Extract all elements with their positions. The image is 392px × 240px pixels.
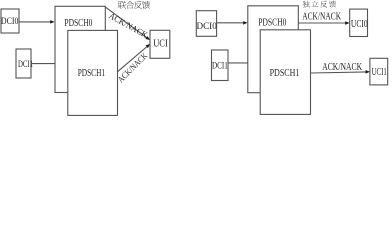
box UCI1 (right diagram) [370, 58, 388, 85]
svg-text:PDSCH0: PDSCH0 [258, 17, 286, 28]
arrow PDSCH1 to UCI diagonal (left lower) [117, 44, 150, 72]
svg-text:DCI1: DCI1 [212, 61, 228, 72]
svg-text:PDSCH0: PDSCH0 [64, 18, 92, 29]
box DCI0 (right diagram) [196, 11, 217, 37]
arrow DCI0 to PDSCH0 (right) [217, 21, 248, 25]
arrow DCI1 to PDSCH1 (left) [31, 62, 68, 65]
svg-text:DCI1: DCI1 [18, 59, 33, 70]
arrow PDSCH1 to UCI1 (right lower) [311, 70, 371, 74]
box PDSCH0 outer (right diagram) [248, 6, 298, 93]
label ACK/NACK (right upper) [302, 12, 341, 23]
box PDSCH1 inner (left diagram, overlaps PDSCH0) [68, 30, 118, 115]
svg-text:PDSCH1: PDSCH1 [270, 68, 300, 79]
arrow PDSCH0 to UCI diagonal (left upper) [105, 7, 150, 40]
box UCI (left diagram) [150, 30, 170, 58]
label ACK/NACK (right lower) [322, 62, 362, 73]
svg-text:ACK/NACK: ACK/NACK [302, 12, 341, 23]
arrow DCI0 to PDSCH0 (left) [19, 20, 55, 24]
svg-text:UCI1: UCI1 [372, 67, 387, 78]
box PDSCH1 inner (right diagram, overlaps PDSCH0) [260, 30, 310, 115]
label 独立反馈 (independent feedback, right) [303, 1, 336, 8]
box DCI1 (left diagram) [16, 49, 33, 78]
label ACK/NACK rotated (left lower) [115, 50, 149, 84]
label ACK/NACK rotated (left upper) [107, 10, 150, 40]
svg-text:UCI: UCI [153, 39, 168, 50]
svg-text:PDSCH1: PDSCH1 [78, 68, 105, 79]
box DCI0 (left diagram) [1, 9, 19, 33]
arrow PDSCH0 to UCI0 (right upper) [298, 21, 349, 25]
svg-text:DCI0: DCI0 [1, 16, 19, 27]
box PDSCH0 outer (left diagram) [55, 6, 105, 92]
svg-text:UCI0: UCI0 [351, 19, 368, 30]
svg-text:DCI0: DCI0 [197, 21, 217, 32]
label 联合反馈 (joint feedback, left) [118, 1, 150, 9]
box DCI1 (right diagram) [212, 50, 229, 81]
arrow DCI1 to PDSCH1 (right) [228, 61, 260, 65]
box UCI0 (right diagram) [350, 9, 368, 36]
